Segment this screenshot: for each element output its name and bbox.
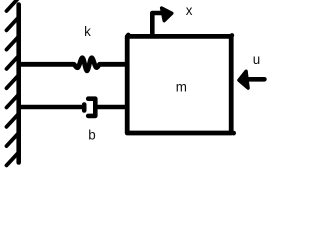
svg-text:x: x (186, 3, 193, 18)
svg-text:m: m (176, 79, 187, 94)
svg-text:k: k (84, 24, 91, 39)
svg-text:u: u (253, 52, 260, 67)
svg-text:b: b (88, 127, 95, 142)
